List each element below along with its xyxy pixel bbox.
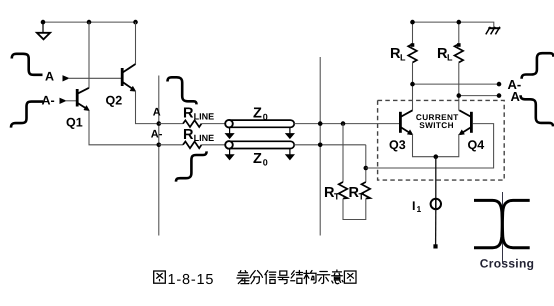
waveform symbol: falling edge above RLINE [168,77,197,104]
wire: Q1 collector vertical [88,22,90,88]
dashed box: current switch [378,100,505,180]
waveform symbol: falling edge at A output [521,95,553,126]
node: dot RT2 / Q4 base loop [364,166,369,171]
svg-text:L: L [447,53,453,63]
hanzi 构 [304,271,316,284]
current source I1 wire top [435,157,437,199]
eye diagram crossing curve 1 [474,200,530,247]
svg-text:T: T [334,191,340,201]
node: dot A tap [457,93,462,98]
wire: I1 bottom [435,210,437,246]
node: dot A- end [497,82,502,87]
Z0 top: left reference arrow [226,127,234,138]
transistor Q3 [400,110,413,135]
wire: RL2 bottom to Q4 collector [458,63,460,111]
svg-text:1-8-15: 1-8-15 [168,272,215,288]
wire: RT bottom U connection [343,199,366,220]
eye diagram crossing curve 2 [474,200,530,247]
waveform symbol: falling edge at input A [12,54,43,75]
transmission line Z0 (top) body [225,120,294,128]
transistor Q4 (mirrored) [459,110,472,135]
node: dot divider2 / A- line [318,143,323,148]
svg-text:Q2: Q2 [106,94,123,108]
svg-text:Z: Z [253,151,262,167]
wire: top-left rail [43,21,136,23]
resistor RL2 [455,44,464,63]
svg-text:Q1: Q1 [66,115,83,129]
svg-text:I: I [412,199,415,213]
wire: Q2 emitter down and right to A line [136,91,159,124]
wire: Q4 collector vertical / RL2 branch [458,22,460,44]
input arrow A- [60,98,66,103]
hanzi 图 [344,271,356,283]
wire: A- input to Q1 base [65,100,76,102]
svg-text:A: A [511,89,521,104]
node: I1 bottom terminal square [433,244,437,248]
hanzi 图 [154,271,166,283]
hanzi 分 [250,271,262,284]
transistor Q2 [122,64,136,91]
wire: A line to resistor [159,123,183,125]
node: dot A- tap [410,82,415,87]
resistor RT1 [339,182,348,199]
ground G2 (earth symbol) [486,27,501,35]
resistor RL1 [408,44,417,63]
ground G1 (open triangle) [37,33,50,40]
svg-text:0: 0 [263,158,268,168]
wire: A output tap [459,95,499,97]
svg-text:Z: Z [253,106,262,122]
hanzi 号 [278,271,289,284]
wire: long vertical divider 2 [319,57,321,236]
input arrow A [63,76,69,81]
node: dot A- line / divider1 [157,143,162,148]
node: dot A line / divider1 [157,121,162,126]
wire: A- line to resistor [159,144,183,146]
wire: A- output tap [413,83,500,85]
svg-text:0: 0 [263,112,268,122]
wire: RT2 top to node [365,168,367,182]
wire: A- net drop to RT2 node [365,145,367,168]
ground G1 stem [42,22,44,32]
node: junction dot rail/Q2 collector [133,20,138,25]
wire: Q3 collector vertical / RL1 branch [412,22,414,44]
node: dot rail/RL1 [410,20,415,25]
svg-text:R: R [183,127,194,143]
svg-text:T: T [359,191,365,201]
wire: top-right rail [413,22,494,28]
svg-text:1: 1 [417,204,422,214]
svg-text:Crossing: Crossing [480,257,534,271]
svg-text:SWITCH: SWITCH [419,121,454,130]
wire: Z0 top output to Q3 base [294,123,399,125]
transmission line Z0 (bottom) body [225,141,294,149]
hanzi 结 [291,271,303,284]
waveform symbol: rising edge at input A- [11,102,43,128]
wire: long vertical divider 1 [158,76,160,236]
wire: RLINE2 to Z0 line 2 [202,144,226,146]
wire: Q3 emitter to join [413,134,459,157]
node: dot rail/RL2 [457,20,462,25]
node: dot A end [497,93,502,98]
resistor RLINE2 [183,142,202,149]
eye diagram vertical line [502,192,504,263]
svg-text:A-: A- [151,128,163,140]
hanzi 信 [265,271,276,284]
svg-text:L: L [400,53,406,63]
transistor Q1 [77,88,89,111]
caption hanzi: 差分信号结构示意图 [237,270,356,284]
wire: RT1 vertical from A line [342,124,344,182]
node: dot RT1 tap on A line [341,121,346,126]
resistor RT2 [362,182,371,199]
svg-text:LINE: LINE [194,133,215,143]
svg-text:A: A [45,69,54,83]
svg-text:A: A [153,106,161,118]
wire: Q4 base loop [366,124,494,168]
resistor RLINE1 [183,120,202,127]
hanzi 差 [237,271,249,284]
current source I1 [431,199,441,209]
wire: A input to Q2 base [68,77,121,79]
wire: Z0 bottom output [294,144,366,146]
Z0 bottom: left reference arrow [226,149,234,160]
hanzi 意 [332,270,343,284]
hanzi 示 [318,272,330,284]
Z0 top: right reference arrow [286,127,294,138]
wire: Q1 emitter down and right to A- line [89,111,159,145]
waveform symbol: rising edge below RLINE2 [176,151,207,181]
wire: RLINE1 to Z0 line 1 [202,123,226,125]
svg-text:LINE: LINE [194,112,215,122]
node: dot emitter join [434,154,439,159]
svg-text:Q3: Q3 [389,138,406,152]
svg-text:Q4: Q4 [468,138,485,152]
node: dot divider2 / A line [318,121,323,126]
waveform symbol: rising edge at A- output [522,53,554,79]
node: junction dot at ground on rail [41,20,46,25]
node: junction dot rail/Q1 collector [87,20,92,25]
Z0 bottom: right reference arrow [286,149,294,160]
wire: Q2 collector vertical [135,22,137,64]
caption: 图1-8-15 [154,271,166,283]
svg-text:A-: A- [42,94,55,108]
svg-text:R: R [183,106,194,122]
wire: RL1 bottom to Q3 collector [412,63,414,111]
